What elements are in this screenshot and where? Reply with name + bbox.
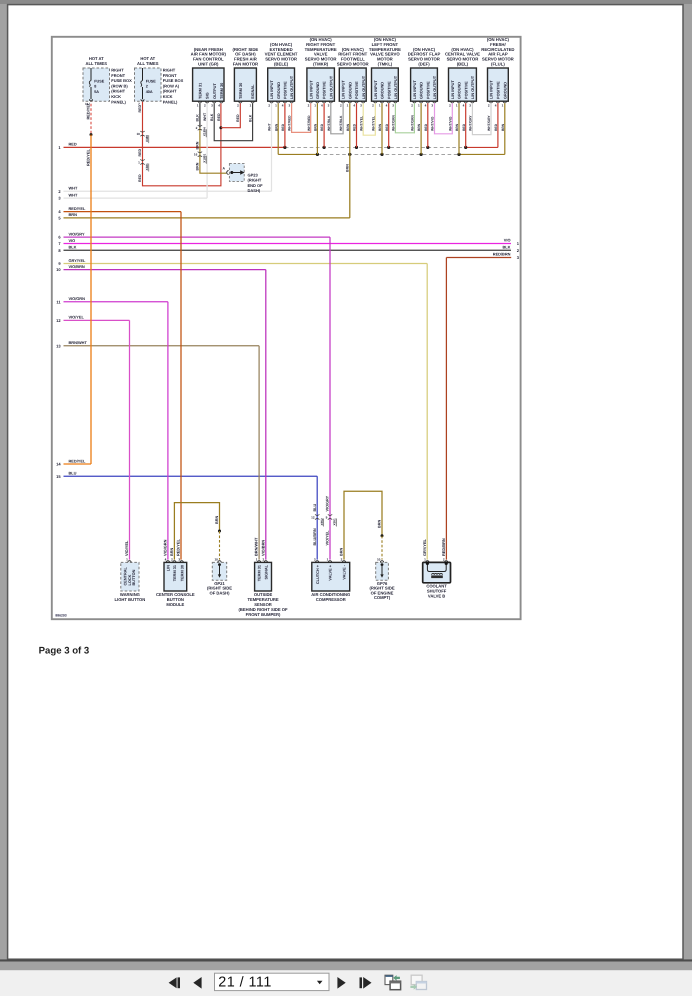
wire 2 WHT [58,186,271,194]
wire 3 WHT [58,192,207,200]
svg-text:SIGNAL: SIGNAL [264,564,268,579]
svg-text:VIO/BRN: VIO/BRN [260,540,265,556]
wire labels servo motor BEL [448,115,472,131]
toolbar last page button [360,977,372,989]
svg-text:(RIGHT: (RIGHT [248,178,262,183]
wire labels servo motor TMKR [307,115,331,131]
fresh air fan motor [233,47,259,108]
wire RED/BRN right exit 3 [446,252,519,261]
label caption ground GP76 right side of engine compt [370,581,395,600]
wire labels servo FLUL [487,115,505,131]
svg-text:GP23: GP23 [248,172,259,177]
svg-text:RED/YEL: RED/YEL [176,539,181,556]
wire 11 VIO/GRN [56,296,168,304]
fuse F2 [135,56,184,105]
svg-text:3: 3 [431,103,433,107]
svg-text:TERM 31: TERM 31 [199,82,203,99]
node RED splice bus [283,146,498,149]
svg-text:POSITIVE: POSITIVE [387,81,391,99]
svg-text:BUTTON: BUTTON [132,569,136,585]
toolbar previous page button [193,977,201,989]
air conditioning compressor [312,557,350,591]
svg-text:4: 4 [282,103,284,107]
svg-text:2: 2 [204,103,206,107]
wire 12 VIO/YEL [56,315,129,323]
svg-text:RED/BRN: RED/BRN [493,252,511,257]
svg-text:4: 4 [495,103,497,107]
svg-text:VIO/GRN: VIO/GRN [163,539,168,556]
svg-text:VALVE +: VALVE + [329,564,333,580]
svg-text:3: 3 [469,103,471,107]
wire LIN chain segment 6 [472,103,491,134]
svg-text:LIN OUTPUT: LIN OUTPUT [329,75,333,99]
svg-text:LIN: LIN [167,565,171,571]
wire WHT edge wire 2 to BELE LIN INPUT [271,103,273,191]
svg-text:RIGHT: RIGHT [163,68,176,73]
svg-text:RED/BRN: RED/BRN [441,538,446,556]
svg-text:GROUND: GROUND [381,82,385,99]
svg-text:ALL TIMES: ALL TIMES [85,61,107,66]
svg-text:BLU: BLU [69,471,77,476]
node BRN splice bus [278,153,505,156]
svg-text:X380: X380 [145,135,149,143]
wire VIO/GRN line11 to center console LIN [163,302,168,560]
svg-text:886293: 886293 [55,614,66,618]
svg-text:RED: RED [217,113,221,121]
svg-text:10: 10 [214,557,218,561]
svg-text:1: 1 [138,160,140,164]
svg-text:LIN OUTPUT: LIN OUTPUT [394,75,398,99]
svg-text:KICK: KICK [163,94,173,99]
svg-text:(TMKL): (TMKL) [378,62,393,67]
svg-text:FUSE: FUSE [94,79,105,83]
svg-text:GROUND: GROUND [277,82,281,99]
svg-text:RED: RED [138,174,142,182]
solenoid coolant shutoff valve B [423,557,451,582]
wire 7 VIO [58,238,511,246]
svg-text:BRN: BRN [378,520,382,528]
svg-text:TERM 31: TERM 31 [258,564,262,581]
svg-text:(BEL): (BEL) [457,62,469,67]
svg-text:1: 1 [424,557,426,561]
svg-text:5A: 5A [94,90,99,94]
svg-text:VIO/GRY: VIO/GRY [326,495,330,511]
svg-text:1: 1 [197,103,199,107]
wire 14 RED/YEL [56,458,91,466]
svg-text:OUTPUT: OUTPUT [213,83,217,99]
svg-text:FAN MOTOR: FAN MOTOR [233,62,258,67]
svg-text:FRONT: FRONT [163,73,177,78]
svg-text:(TMKR): (TMKR) [313,62,329,67]
svg-text:BLK: BLK [503,244,511,249]
svg-text:LIN INPUT: LIN INPUT [342,80,346,99]
wire 13 BRN/WHT [56,340,259,348]
svg-text:SERVO MOTOR: SERVO MOTOR [337,62,369,67]
svg-text:LIN INPUT: LIN INPUT [490,80,494,99]
svg-text:2: 2 [488,103,490,107]
wire BRN bus drop to edge wire 5 [345,154,349,218]
svg-text:RED: RED [69,141,77,146]
svg-text:(RIGHT: (RIGHT [163,89,177,94]
wire labels servo motor BELE [268,115,292,131]
svg-text:BRN/WHT: BRN/WHT [254,537,259,556]
svg-text:POSITIVE: POSITIVE [355,81,359,99]
svg-text:VALVE -: VALVE - [343,564,347,579]
svg-text:FRONT: FRONT [111,73,125,78]
servo motor BEL [445,47,480,108]
svg-text:9: 9 [326,515,328,519]
svg-text:(ROW A): (ROW A) [163,83,180,88]
wire VIO/BRN line10 to outside temp sensor [260,270,265,560]
svg-text:4: 4 [386,103,388,107]
svg-text:WHT: WHT [69,192,78,197]
svg-text:3: 3 [288,103,290,107]
svg-text:RED: RED [138,149,142,157]
svg-text:4: 4 [425,103,427,107]
wire labels servo motor right front footwell [339,115,363,131]
svg-text:2: 2 [449,103,451,107]
svg-text:10: 10 [136,132,140,136]
svg-text:PANEL): PANEL) [163,99,178,104]
wire 4 RED/YEL [58,206,181,214]
label caption center console button module [156,592,195,607]
svg-text:TERM 30: TERM 30 [239,83,243,99]
svg-text:X1891: X1891 [203,153,207,162]
svg-text:WHT: WHT [203,112,207,121]
servo motor DEF [408,47,441,108]
svg-text:2: 2 [262,557,264,561]
svg-text:RED/YEL: RED/YEL [69,458,86,463]
svg-text:7: 7 [138,102,140,106]
wire VIO/GRY line6 to compressor valve+ [326,237,337,559]
svg-text:RED/YEL: RED/YEL [69,206,86,211]
svg-text:3: 3 [314,557,316,561]
servo motor FLUL [481,37,514,107]
wire 15 BLU [56,471,317,479]
svg-text:UNIT (GR): UNIT (GR) [198,62,219,67]
node VIO right exit 1 [504,238,520,247]
label caption outside temperature sensor [239,592,288,617]
wire labels servo motor TMKL [371,114,395,131]
svg-text:LIN INPUT: LIN INPUT [413,80,417,99]
svg-text:2: 2 [268,103,270,107]
svg-text:BRN/WHT: BRN/WHT [69,340,88,345]
svg-text:X552: X552 [320,518,324,526]
svg-text:14: 14 [56,462,61,467]
svg-text:VIO: VIO [504,238,511,243]
svg-text:15: 15 [56,474,61,479]
wire LIN chain segment 2 [331,103,343,134]
svg-text:SIGNAL: SIGNAL [251,84,255,99]
label caption ground GP21 right side of dash [207,581,232,596]
label caption warning light button [115,592,146,602]
svg-text:VIO/BRN: VIO/BRN [69,264,85,269]
wire 1 RED power bus [58,141,285,150]
toolbar next view button (disabled) [410,975,426,990]
svg-text:3: 3 [178,557,180,561]
toolbar next page button [337,977,345,989]
svg-text:1: 1 [249,103,251,107]
svg-text:1: 1 [502,103,504,107]
ground GP76 right side of engine compt [376,557,389,580]
svg-text:4: 4 [353,103,355,107]
svg-text:BRN: BRN [196,141,200,149]
svg-text:LIN INPUT: LIN INPUT [309,80,313,99]
svg-text:4: 4 [218,103,220,107]
svg-text:FUSE BOX: FUSE BOX [163,78,184,83]
wire LIN chain segment 5 [435,103,453,134]
svg-text:TERM 31: TERM 31 [173,564,177,581]
svg-text:BRN: BRN [345,164,349,172]
wire BRN compressor valve- to ground GP76 [340,491,384,559]
svg-text:LIN INPUT: LIN INPUT [270,80,274,99]
svg-text:4: 4 [463,103,465,107]
servo motor right front footwell [337,47,369,108]
svg-text:Page 3 of 3: Page 3 of 3 [39,646,90,657]
wire RED/YEL fuse1 feed [85,99,93,464]
wire labels servo motor DEF [411,114,435,131]
toolbar previous view button [385,975,401,990]
label caption air conditioning compressor [311,592,350,602]
outside temperature sensor [255,557,272,591]
svg-text:1: 1 [275,103,277,107]
wire RED branch to fresh air fan motor [221,103,240,128]
svg-text:GROUND: GROUND [316,82,320,99]
wire BRN/WHT line13 to outside temp sensor [254,346,259,560]
wire LIN chain segment 3 [363,103,375,135]
wire 9 GRY/YEL [58,258,427,266]
wire BLK fan motor to fan control OUTPUT [214,103,252,141]
warning light button [121,557,139,591]
servo motor TMKL [369,37,401,107]
svg-text:RED/YEL: RED/YEL [86,149,91,166]
wire WHT fan control LIN to edge wire 3 [206,103,208,198]
svg-text:12: 12 [311,515,315,519]
center console button module [164,557,187,591]
toolbar page combo box 21 / 111 [215,973,330,990]
svg-text:LIN OUTPUT: LIN OUTPUT [290,75,294,99]
svg-text:(ROW B): (ROW B) [111,83,128,88]
svg-text:16: 16 [194,153,198,157]
svg-text:40A: 40A [146,90,153,94]
svg-text:POSITIVE: POSITIVE [284,81,288,99]
svg-text:POSITIVE: POSITIVE [426,81,430,99]
svg-text:3: 3 [392,103,394,107]
svg-text:WHT: WHT [69,186,78,191]
svg-text:BRN: BRN [196,162,200,170]
fuse F1 [83,56,132,105]
svg-text:GRY/YEL: GRY/YEL [422,538,427,556]
svg-text:FUSE: FUSE [146,79,157,83]
svg-text:1: 1 [256,557,258,561]
svg-text:POSITIVE: POSITIVE [464,81,468,99]
svg-text:VIO/YEL: VIO/YEL [326,530,330,546]
svg-text:2: 2 [340,103,342,107]
svg-text:2: 2 [372,103,374,107]
svg-text:LIN OUTPUT: LIN OUTPUT [362,75,366,99]
label caption coolant shutoff valve B [426,584,447,599]
svg-text:1: 1 [379,103,381,107]
svg-text:BLU/BRN: BLU/BRN [313,528,317,545]
wire RED/BRN exit3 to coolant valve pin2 [441,258,446,560]
svg-text:2: 2 [443,557,445,561]
svg-text:OF DASH): OF DASH) [209,590,230,595]
svg-text:VIO/GRY: VIO/GRY [69,231,85,236]
svg-text:3: 3 [328,103,330,107]
svg-text:8: 8 [94,85,96,89]
svg-text:DASH): DASH) [248,188,261,193]
svg-text:GROUND: GROUND [348,82,352,99]
svg-text:BRN: BRN [170,548,174,556]
svg-text:BLK: BLK [69,245,77,250]
wire 6 VIO/GRY [58,231,330,239]
svg-text:SIG: SIG [206,92,210,99]
svg-text:X551: X551 [333,518,337,526]
svg-text:(RIGHT: (RIGHT [111,89,125,94]
svg-text:RED: RED [236,114,240,122]
wire RED/YEL line4 to center console TERM 30 [176,212,181,560]
svg-text:GROUND: GROUND [458,82,462,99]
svg-text:KICK: KICK [111,94,121,99]
svg-text:COMPT): COMPT) [374,595,391,600]
svg-text:LIGHT BUTTON: LIGHT BUTTON [115,597,146,602]
svg-text:2: 2 [341,557,343,561]
ground GP23 right end of dash [223,164,264,194]
svg-text:GRY/YEL: GRY/YEL [69,258,87,263]
svg-text:VIO/YEL: VIO/YEL [124,540,129,556]
label page number [39,646,90,657]
svg-text:FUSE BOX: FUSE BOX [111,78,132,83]
svg-text:1: 1 [126,557,128,561]
svg-text:3: 3 [211,103,213,107]
wire BRN center console TERM 31 to ground GP21 [170,503,221,560]
svg-text:END OF: END OF [248,183,264,188]
svg-text:BLK: BLK [210,113,214,121]
svg-text:TERM 30: TERM 30 [220,83,224,99]
wire BLK/BRN fan control TERM 31 to ground GP23 [194,103,226,173]
label fan control unit wire colors [203,112,221,121]
svg-text:2: 2 [146,85,148,89]
servo motor BELE [265,42,298,108]
svg-text:ALL TIMES: ALL TIMES [137,61,159,66]
svg-text:BLU: BLU [313,503,317,511]
svg-text:POSITIVE: POSITIVE [323,81,327,99]
svg-text:MODULE: MODULE [166,602,184,607]
svg-text:2: 2 [237,103,239,107]
svg-text:VIO/YEL: VIO/YEL [69,315,85,320]
wire RED fuse2 to fan control unit TERM 30 [136,99,222,186]
svg-text:LIN INPUT: LIN INPUT [451,80,455,99]
svg-text:21 / 111: 21 / 111 [218,975,271,991]
node BLK right exit 2 [503,244,520,253]
svg-text:FRONT BUMPER): FRONT BUMPER) [246,612,281,617]
svg-text:4: 4 [165,557,167,561]
svg-text:VALVE B: VALVE B [428,593,445,598]
svg-text:1: 1 [418,103,420,107]
svg-text:1: 1 [314,103,316,107]
svg-text:X1894: X1894 [203,127,207,136]
svg-text:COMPRESSOR: COMPRESSOR [316,597,346,602]
svg-text:4: 4 [321,103,323,107]
svg-text:12: 12 [56,318,61,323]
svg-text:BRN: BRN [340,548,344,556]
svg-text:LIN OUTPUT: LIN OUTPUT [471,75,475,99]
wire servo GROUND drops BRN [278,103,505,154]
svg-text:1: 1 [347,103,349,107]
svg-text:10: 10 [377,557,381,561]
svg-text:16: 16 [85,102,89,106]
ground GP21 right side of dash [212,557,226,580]
svg-text:PANEL): PANEL) [111,99,126,104]
svg-text:WHT: WHT [268,123,272,131]
svg-text:GROUND: GROUND [420,82,424,99]
fan control unit GR [191,47,227,108]
svg-text:10: 10 [56,267,61,272]
svg-text:VIO: VIO [69,238,76,243]
svg-text:2: 2 [411,103,413,107]
svg-text:LIN INPUT: LIN INPUT [374,80,378,99]
svg-text:POSITIVE: POSITIVE [497,81,501,99]
svg-text:(DEF): (DEF) [418,62,430,67]
svg-text:1: 1 [327,557,329,561]
svg-text:BLK: BLK [248,114,252,122]
svg-text:TERM 30: TERM 30 [180,565,184,581]
svg-text:LIN OUTPUT: LIN OUTPUT [433,75,437,99]
wire VIO/YEL line12 to warning light button [124,320,129,559]
wire servo POSITIVE drops RED [285,103,498,147]
wire BLU line15 to compressor clutch [311,476,324,559]
svg-text:3: 3 [360,103,362,107]
svg-text:2: 2 [308,103,310,107]
wire 8 BLK [58,245,511,253]
svg-text:1: 1 [456,103,458,107]
svg-text:2: 2 [196,126,198,130]
svg-text:RIGHT: RIGHT [111,68,124,73]
svg-text:(FLUL): (FLUL) [491,62,505,67]
svg-text:BLK: BLK [196,114,200,122]
toolbar first page button [169,977,180,988]
svg-text:GROUND: GROUND [503,82,507,99]
svg-text:BRN: BRN [69,212,78,217]
wire LIN chain segment 4 [395,103,414,133]
svg-text:13: 13 [56,343,61,348]
wire 5 BRN [58,212,349,220]
wire LIN chain segment 1 [292,103,311,132]
svg-text:VIO/GRN: VIO/GRN [69,296,86,301]
servo motor TMKR [305,37,337,107]
wire GRY/YEL line9 to coolant valve pin1 [422,264,427,560]
svg-text:BRN: BRN [215,516,219,524]
svg-text:2: 2 [171,557,173,561]
svg-text:(BELE): (BELE) [274,62,289,67]
wire 10 VIO/BRN [56,264,266,272]
svg-text:X381: X381 [145,163,149,171]
svg-text:CLUTCH +: CLUTCH + [316,564,320,584]
